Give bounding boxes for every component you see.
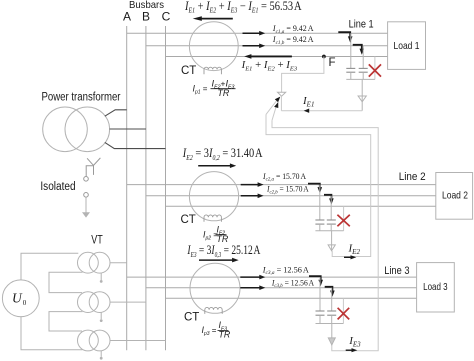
svg-text:A: A — [123, 10, 131, 24]
line 1 phase B current arrow — [243, 45, 261, 47]
line 3 phase A wire — [127, 276, 417, 278]
wire U0 bottom to VT3 lower terminal — [21, 316, 83, 350]
line 2 capacitor Ca plates — [315, 219, 324, 221]
VT2 earth stub — [100, 312, 102, 319]
line 1 capacitor Cb plates — [359, 67, 368, 69]
IE2 arrow right — [344, 256, 351, 258]
transformer phase C connection wire — [105, 142, 166, 148]
transformer neutral Y symbol — [87, 158, 100, 175]
CT3 circle — [190, 263, 240, 313]
line 1 phase B wire — [146, 45, 388, 47]
svg-text:Line 3: Line 3 — [384, 265, 409, 277]
IE1 return wire — [281, 110, 362, 112]
isolator earth stem — [85, 197, 87, 212]
transformer phase A connection wire — [105, 110, 127, 116]
line 3 earth triangle — [328, 338, 335, 345]
svg-text:B: B — [142, 10, 150, 24]
line 3 faulted phase C branch — [342, 298, 344, 323]
svg-text:Load 1: Load 1 — [394, 40, 420, 52]
svg-text:TR: TR — [218, 88, 230, 98]
line 2 phase C wire — [166, 205, 436, 207]
line 2 capacitor branch A — [319, 185, 321, 220]
IE1 arrowhead on wire — [304, 109, 310, 113]
line 3 capacitor branch B — [331, 288, 333, 311]
line 1 capacitor Ca plates — [346, 67, 355, 69]
IE3 return wire top run — [272, 120, 378, 350]
svg-text:Load 3: Load 3 — [423, 281, 448, 293]
svg-text:Power transformer: Power transformer — [42, 91, 121, 103]
svg-text:F: F — [329, 57, 336, 69]
busbar C vertical — [165, 26, 167, 350]
busbar B vertical — [145, 26, 147, 350]
CT2 coil — [204, 215, 221, 222]
line 2 capacitor branch B — [330, 196, 332, 220]
svg-text:C: C — [162, 10, 171, 24]
svg-text:IE2 = 3I0,2 = 31.40A: IE2 = 3I0,2 = 31.40A — [182, 146, 263, 162]
line 1 capacitor branch A — [350, 33, 352, 68]
svg-text:IE3 = 3I0,3 = 25.12A: IE3 = 3I0,3 = 25.12A — [187, 243, 261, 259]
CT1 coil — [204, 67, 221, 74]
U0 source circle — [2, 280, 39, 317]
svg-text:CT: CT — [181, 214, 196, 226]
line 3 bent arrow phase A to capacitor — [309, 276, 321, 281]
svg-text:Line 1: Line 1 — [349, 19, 374, 31]
VT2 circles — [78, 292, 99, 313]
line 2 red X broken capacitor — [337, 215, 349, 226]
fault earth to IE1 wire stem — [280, 96, 282, 111]
line 1 bent arrow phase A to capacitor — [338, 32, 350, 38]
isolated switch upper contact — [84, 177, 89, 182]
svg-text:Isolated: Isolated — [40, 181, 75, 193]
line 1 red X broken capacitor — [369, 64, 381, 76]
equation 2 right arrow — [198, 165, 230, 167]
line 2 capacitor bottom connector — [315, 230, 343, 232]
line 3 phase A current arrow — [240, 276, 260, 278]
wire VT2 to busbar B — [110, 301, 146, 303]
fault earth triangle — [278, 92, 286, 96]
line 3 capacitor branch A — [319, 277, 321, 311]
line 1 phase C fault current arrow (left) — [251, 55, 292, 57]
CT3 secondary current formula I_p3=I_E3/TR — [202, 320, 231, 339]
line 2 faulted phase C branch — [343, 206, 345, 231]
Load 1 box — [388, 22, 426, 70]
VT3 earth stub — [100, 351, 102, 357]
equation 1 left arrow — [201, 18, 233, 20]
line 1 phase A wire — [127, 32, 388, 34]
line 3 bent arrow phase B to capacitor — [325, 287, 333, 292]
line 2 phase A current arrow — [241, 184, 259, 186]
IE3 arrow right — [346, 349, 353, 351]
line 1 phase A current arrow — [243, 32, 261, 34]
line 3 phase B current arrow — [240, 287, 260, 289]
CT2 secondary current formula I_p2=I_E2/TR — [203, 225, 229, 244]
fault path from F to earth — [282, 57, 324, 93]
line 2 bent arrow phase B to capacitor — [324, 195, 331, 200]
line 1 capacitor branch B — [362, 46, 364, 69]
line 3 phase B wire — [146, 287, 417, 289]
svg-text:IE1 + IE2 + IE3 − IE1 = 56.53A: IE1 + IE2 + IE3 − IE1 = 56.53A — [184, 0, 301, 15]
line 1 phase C wire — [166, 56, 388, 58]
IE3 diagonal arrow into fault point — [272, 106, 277, 121]
Load 2 box — [436, 173, 473, 220]
svg-text:CT: CT — [181, 65, 196, 77]
line 2 phase B wire — [146, 195, 436, 197]
line 1 earth stem — [361, 79, 363, 110]
line 3 capacitor bottom connector — [316, 323, 344, 325]
line 1 faulted phase C branch — [374, 57, 376, 80]
line 2 capacitor Cb plates — [327, 219, 336, 221]
line 1 bent arrow phase B to capacitor — [353, 45, 362, 50]
busbar A vertical — [126, 26, 128, 350]
line 2 earth triangle — [328, 245, 335, 251]
line 3 capacitor Cb plates — [327, 310, 336, 312]
line 1 earth triangle — [358, 96, 366, 102]
neutral to isolator wire — [86, 166, 93, 177]
transformer phase B connection wire — [110, 128, 146, 130]
wire VT1 lower to VT2 upper terminal — [49, 272, 83, 292]
wire VT3 to busbar C — [110, 340, 166, 342]
VT1 circles — [78, 252, 99, 273]
Load 3 box — [417, 263, 455, 312]
line 3 earth stem — [331, 324, 333, 346]
line 2 phase B current arrow — [241, 195, 259, 197]
equation 3 right arrow — [199, 259, 233, 261]
svg-text:CT: CT — [184, 311, 199, 323]
VT1 earth stub — [100, 273, 102, 280]
line 2 phase A wire — [127, 184, 436, 186]
IE2 return wire top run — [266, 114, 371, 256]
svg-text:Line 2: Line 2 — [399, 171, 426, 183]
CT2 circle — [189, 172, 238, 221]
line 1 capacitor bottom connector — [346, 78, 375, 80]
power transformer T1 circles — [43, 107, 88, 152]
fault point F dot — [322, 55, 326, 59]
isolator earth arrow — [82, 212, 90, 217]
line 3 capacitor Ca plates — [316, 310, 325, 312]
wire U0 top to VT1 upper terminal — [21, 253, 78, 280]
svg-text:VT: VT — [91, 234, 103, 246]
line 2 earth stem — [331, 231, 333, 251]
isolated switch lower contact — [84, 193, 89, 198]
IE2 diagonal arrow into fault point — [266, 100, 278, 115]
svg-text:TR: TR — [219, 330, 231, 340]
VT3 circles — [78, 330, 99, 351]
svg-text:Load 2: Load 2 — [442, 189, 468, 201]
CT1 secondary current formula I_p1=(I_E2+I_E3)/TR — [193, 79, 236, 98]
line 3 red X broken capacitor — [338, 308, 350, 320]
CT3 coil — [205, 307, 222, 313]
line 2 bent arrow phase A to capacitor — [308, 184, 320, 189]
CT1 circle — [189, 22, 238, 71]
wire VT2 lower to VT3 upper terminal — [49, 312, 83, 331]
line 3 phase C wire — [166, 297, 417, 299]
wire VT1 to busbar A — [110, 262, 127, 264]
